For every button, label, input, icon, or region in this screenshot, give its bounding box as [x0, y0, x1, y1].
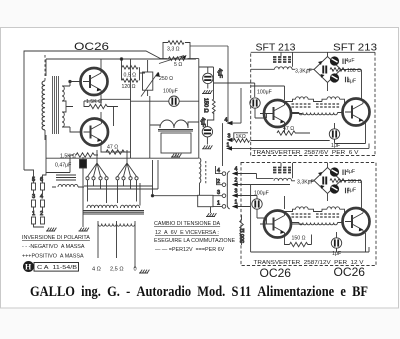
svg-text:100μF: 100μF — [257, 90, 272, 96]
svg-text:CAMBIO DI TENSIONE DA: CAMBIO DI TENSIONE DA — [154, 221, 221, 227]
svg-text:2: 2 — [235, 178, 238, 184]
svg-text:4μF: 4μF — [217, 69, 223, 79]
svg-text:+++POSITIVO A MASSA: +++POSITIVO A MASSA — [22, 254, 84, 260]
svg-text:ESEGUIRE LA COMMUTAZIONE: ESEGUIRE LA COMMUTAZIONE — [154, 238, 235, 244]
svg-text:1: 1 — [227, 143, 230, 149]
svg-text:3: 3 — [235, 189, 238, 195]
svg-text:3,3 Ω: 3,3 Ω — [167, 47, 180, 53]
svg-text:OC26: OC26 — [334, 265, 366, 279]
svg-text:150 Ω: 150 Ω — [203, 98, 209, 113]
svg-text:5 Ω: 5 Ω — [174, 62, 182, 68]
svg-text:4: 4 — [225, 118, 228, 124]
svg-text:4μF: 4μF — [346, 169, 355, 175]
svg-text:4: 4 — [235, 167, 238, 173]
svg-text:3: 3 — [228, 134, 231, 140]
svg-text:2: 2 — [40, 211, 43, 217]
svg-text:12 A 6V E VICEVERSA :: 12 A 6V E VICEVERSA : — [155, 230, 219, 236]
svg-text:0,47μF: 0,47μF — [55, 163, 71, 169]
svg-text:100μF: 100μF — [163, 89, 178, 95]
svg-text:1,5K Ω: 1,5K Ω — [60, 154, 76, 160]
svg-text:TRANSVERTER 2587/6V PER 6 V: TRANSVERTER 2587/6V PER 6 V — [253, 150, 360, 156]
svg-text:3,3KμF: 3,3KμF — [295, 69, 312, 75]
svg-text:1,5K Ω: 1,5K Ω — [86, 99, 102, 105]
svg-text:SFT 213: SFT 213 — [333, 43, 378, 54]
svg-text:120 Ω: 120 Ω — [122, 84, 136, 90]
svg-text:- - -NEGATIVO A MASSA: - - -NEGATIVO A MASSA — [22, 244, 85, 250]
svg-text:47 Ω: 47 Ω — [107, 145, 118, 151]
svg-text:4μF: 4μF — [200, 118, 206, 128]
svg-text:2,5 Ω: 2,5 Ω — [110, 267, 124, 273]
svg-text:1KΩ: 1KΩ — [236, 134, 246, 140]
svg-text:150 Ω: 150 Ω — [292, 236, 306, 242]
svg-text:2: 2 — [217, 179, 220, 185]
svg-text:4μF: 4μF — [346, 58, 355, 64]
svg-text:H: H — [25, 263, 32, 272]
svg-text:OC26: OC26 — [260, 266, 292, 280]
svg-text:1: 1 — [32, 211, 35, 217]
svg-text:100μF: 100μF — [254, 191, 269, 197]
svg-text:4μF: 4μF — [347, 188, 356, 194]
svg-text:0: 0 — [134, 267, 137, 273]
svg-text:47 Ω: 47 Ω — [283, 126, 294, 132]
svg-text:3,3KμF: 3,3KμF — [297, 180, 314, 186]
svg-text:TRANSVERTER 2587/12V PER 12: TRANSVERTER 2587/12V PER 12 V — [254, 260, 365, 266]
svg-text:OC26: OC26 — [74, 41, 109, 53]
svg-text:— — =PER12V ===PER 6V: — — =PER12V ===PER 6V — [155, 247, 225, 253]
svg-text:1μF: 1μF — [332, 251, 341, 257]
svg-text:1μF: 1μF — [331, 143, 340, 149]
svg-text:3: 3 — [217, 190, 220, 196]
svg-text:1: 1 — [217, 201, 220, 207]
svg-text:4 Ω: 4 Ω — [92, 267, 101, 273]
svg-text:SFT 213: SFT 213 — [256, 43, 296, 54]
svg-text:1: 1 — [235, 200, 238, 206]
svg-text:300 Ω: 300 Ω — [240, 228, 246, 243]
svg-text:4: 4 — [217, 168, 220, 174]
svg-text:250 Ω: 250 Ω — [159, 76, 173, 82]
svg-text:4: 4 — [40, 194, 43, 200]
svg-text:0,5 Ω: 0,5 Ω — [124, 73, 137, 79]
svg-text:3: 3 — [32, 194, 35, 200]
svg-text:100 Ω: 100 Ω — [348, 179, 362, 185]
svg-text:100 Ω: 100 Ω — [347, 68, 361, 74]
svg-text:GALLO ing. G. - Autoradio: GALLO ing. G. - Autoradio Mod. S 11 Alim… — [30, 284, 368, 300]
svg-text:C A 11-54/B: C A 11-54/B — [37, 265, 78, 271]
svg-text:INVERSIONE DI POLARITA: INVERSIONE DI POLARITA — [22, 235, 90, 241]
svg-text:4μF: 4μF — [347, 79, 356, 85]
